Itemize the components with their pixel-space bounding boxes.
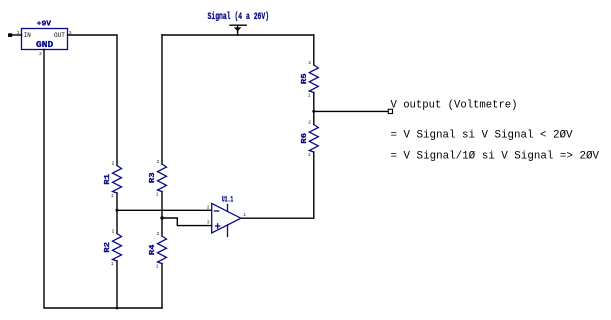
junction R2 rail — [116, 307, 119, 310]
svg-text:2: 2 — [112, 161, 115, 167]
svg-text:Signal (4 a 26V): Signal (4 a 26V) — [208, 11, 270, 23]
op-amp power stub bottom — [227, 225, 229, 237]
node Vout junction — [312, 110, 315, 113]
wire node B to op-amp plus input — [162, 218, 212, 226]
resistor R3 — [158, 164, 167, 192]
svg-text:+9V: +9V — [37, 21, 52, 29]
wire R6 bottom to op-amp output — [241, 152, 314, 218]
wire R1 bottom to R2 top — [116, 193, 118, 234]
svg-text:IN: IN — [24, 32, 31, 39]
svg-text:R3: R3 — [149, 172, 157, 183]
wire R2 bottom to rail — [116, 261, 118, 308]
svg-text:1: 1 — [308, 152, 311, 158]
svg-text:U1.1: U1.1 — [222, 194, 234, 204]
wire rail to R5 top — [313, 35, 315, 65]
input terminal square — [8, 33, 12, 37]
resistor R4 — [158, 236, 167, 264]
svg-text:OUT: OUT — [54, 32, 65, 39]
power symbol Signal — [230, 25, 246, 35]
svg-text:2: 2 — [39, 51, 42, 57]
svg-text:3: 3 — [207, 220, 210, 226]
output terminal open square — [388, 109, 392, 113]
svg-text:R2: R2 — [104, 241, 112, 252]
resistor R5 — [309, 65, 318, 92]
wire OUT to R1 top — [68, 35, 118, 166]
op-amp minus sign — [215, 210, 219, 212]
signal rail wire — [162, 34, 314, 36]
wire R3 bottom to R4 top — [161, 192, 163, 237]
wire node to output terminal — [314, 110, 389, 112]
svg-text:2: 2 — [157, 231, 160, 237]
wire R4 bottom to rail — [161, 264, 163, 309]
svg-text:GND: GND — [36, 40, 54, 50]
wire node A to op-amp minus input — [117, 209, 212, 211]
op-amp U1.1 — [212, 203, 241, 233]
resistor R2 — [113, 234, 122, 262]
resistor R1 — [113, 166, 122, 194]
regulator VR1 box — [22, 29, 68, 50]
resistor R6 — [309, 125, 318, 153]
svg-text:= V Signal/1Ø si V Signal => 2: = V Signal/1Ø si V Signal => 2ØV — [391, 150, 600, 162]
svg-text:2: 2 — [308, 60, 311, 66]
svg-text:1: 1 — [156, 192, 159, 198]
op-amp power stub top — [227, 205, 229, 212]
node A junction — [116, 209, 119, 212]
node B junction — [160, 216, 163, 219]
svg-text:2: 2 — [112, 229, 115, 235]
svg-text:R6: R6 — [301, 132, 309, 143]
wire R5 bottom to R6 top — [313, 93, 315, 125]
svg-text:2: 2 — [308, 120, 311, 126]
svg-text:1: 1 — [243, 212, 246, 218]
svg-text:1: 1 — [156, 264, 159, 270]
svg-text:R1: R1 — [104, 173, 112, 184]
svg-text:1: 1 — [111, 261, 114, 267]
wire input to IN — [12, 34, 22, 36]
svg-text:2: 2 — [207, 204, 210, 210]
svg-text:V output (Voltmetre): V output (Voltmetre) — [391, 99, 518, 111]
wire rail to R3 top — [161, 35, 163, 164]
wire GND down and bottom rail — [44, 50, 162, 309]
svg-text:R5: R5 — [301, 73, 309, 84]
svg-text:1: 1 — [308, 93, 311, 99]
svg-text:R4: R4 — [149, 244, 157, 255]
svg-text:2: 2 — [157, 159, 160, 165]
op-amp plus sign — [216, 224, 220, 228]
svg-text:1: 1 — [111, 193, 114, 199]
svg-text:= V Signal si V Signal < 2ØV: = V Signal si V Signal < 2ØV — [391, 130, 574, 142]
